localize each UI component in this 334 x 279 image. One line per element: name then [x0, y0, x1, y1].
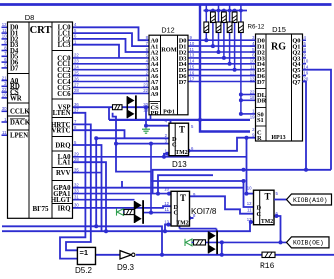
svg-text:32: 32: [74, 183, 79, 188]
wire FF-C D feed from V2 vertical: [244, 181, 254, 207]
svg-text:26: 26: [74, 76, 79, 81]
wire D13.C to U-route vertical: [116, 143, 169, 145]
wire ROM D2 to D15 D2: [188, 51, 256, 53]
wire ROM D3 to D15 D3: [188, 57, 256, 59]
wire D8 control stub: [2, 110, 8, 112]
net flag KIOB(A10): [287, 194, 332, 205]
wire CC0 to ROM A3: [73, 57, 150, 59]
junction L2/S line: [156, 192, 160, 196]
wire riser to D13.S: [170, 120, 172, 126]
svg-text:R: R: [257, 135, 262, 142]
wire pull-up to data line: [229, 33, 231, 64]
svg-text:PR: PR: [151, 110, 160, 117]
wire D8 data stub D7: [2, 67, 8, 69]
svg-text:12: 12: [2, 22, 7, 27]
wire to D15.DR: [241, 99, 256, 101]
svg-text:TM2: TM2: [261, 219, 273, 225]
svg-text:D5.2: D5.2: [75, 266, 92, 275]
svg-text:27: 27: [74, 82, 79, 87]
svg-text:KOI7/8: KOI7/8: [191, 207, 217, 216]
junction x96/bus: [94, 224, 98, 228]
junction pull-up/data: [217, 50, 221, 54]
wire DRQ down: [73, 145, 102, 231]
green input arrow group2: [117, 208, 124, 215]
wire CC2 to ROM A5: [73, 69, 150, 71]
svg-text:20: 20: [304, 76, 309, 81]
IC D15 shift register body: [256, 34, 303, 141]
svg-text:13: 13: [247, 217, 252, 222]
junction FF-B R pin: [167, 223, 171, 227]
wire RVV stub: [73, 172, 102, 174]
wire LC0 to ROM A0: [73, 27, 150, 40]
wire pull-up R12 column to DL DR S0: [240, 33, 242, 114]
resistor R16 body: [262, 252, 275, 257]
svg-text:12: 12: [250, 70, 255, 75]
svg-text:TM2: TM2: [175, 150, 187, 156]
wire D13.D line: [96, 137, 169, 139]
wire main vertical bus x=200 from top rail: [200, 5, 250, 132]
svg-text:10: 10: [2, 93, 7, 98]
wire D8 data stub D2: [2, 38, 8, 40]
wire group2 arrow link: [123, 211, 124, 213]
junction LA1/bus2: [104, 229, 108, 233]
svg-text:C: C: [174, 209, 179, 216]
wire ROM PGM from clock line: [150, 113, 152, 120]
ground symbol: [142, 128, 150, 134]
svg-text:Q7: Q7: [292, 79, 301, 86]
svg-text:23: 23: [143, 82, 148, 87]
junction sub-rail: [204, 9, 208, 13]
wire Q7 down to net: [303, 82, 307, 170]
svg-text:17: 17: [190, 76, 195, 81]
resistor group3: [194, 240, 206, 245]
svg-text:T: T: [180, 193, 186, 203]
wire rail stub to resistor: [218, 5, 220, 23]
svg-text:10: 10: [304, 59, 309, 64]
wire HRTC down to D5.2 detour: [66, 124, 91, 250]
svg-text:T: T: [264, 192, 270, 202]
svg-text:D7: D7: [10, 65, 19, 72]
wire FF-C Qbar down: [277, 216, 281, 242]
wire FF-B bottom riser to group3 line: [179, 226, 181, 229]
junction D13.Q: [187, 149, 191, 153]
svg-text:11: 11: [247, 207, 252, 212]
junction D13.C/clock riser: [149, 142, 153, 146]
svg-text:A9: A9: [151, 91, 159, 98]
diode pair VD on CS: [127, 95, 136, 119]
svg-text:24: 24: [74, 65, 79, 70]
XOR gate D5.2: [77, 247, 95, 264]
junction stem/D13.S wire: [144, 124, 148, 128]
junction sub-rail: [222, 9, 226, 13]
svg-text:D12: D12: [161, 26, 174, 35]
wire Q5 long to right edge and down: [303, 70, 332, 170]
wire D8 control stub: [2, 85, 8, 87]
junction pull-up/data: [211, 44, 215, 48]
wire ROM D7 to D15 D7: [188, 81, 256, 83]
svg-text:D7: D7: [257, 79, 266, 86]
svg-text:13: 13: [164, 220, 169, 225]
svg-text:22: 22: [2, 87, 7, 92]
wire D8 data stub D3: [2, 44, 8, 46]
wire D13.R hook from LA0 line: [164, 154, 169, 157]
wire pull-up to data line: [223, 23, 225, 58]
net flag KOIB(OE): [287, 237, 330, 248]
wire LC2 to ROM A2: [73, 39, 150, 52]
junction FF-C Qbar: [275, 214, 279, 218]
svg-text:29: 29: [74, 152, 79, 157]
resistor group2: [124, 209, 135, 214]
svg-text:RVV: RVV: [56, 170, 71, 177]
wire riser KOIB to R16 line: [221, 242, 223, 254]
svg-text:10: 10: [190, 41, 195, 46]
junction KOIB/riser: [220, 240, 224, 244]
wire sub-rail stub: [234, 11, 236, 13]
wire LTEN down to D5.2 detour: [60, 113, 85, 259]
wire ROM D6 to D15 D6: [188, 75, 256, 77]
junction Q7/line Q: [304, 168, 308, 172]
wire D5.2 out to D9.3 in: [96, 254, 121, 256]
svg-text:LA1: LA1: [58, 160, 71, 167]
svg-text:KIOB(A10): KIOB(A10): [293, 197, 328, 204]
svg-text:KOIB(OE): KOIB(OE): [293, 240, 324, 247]
junction CS/ground stem: [144, 105, 148, 109]
wire D8 data stub D1: [2, 32, 8, 34]
svg-text:30: 30: [74, 203, 79, 208]
wire RC filter to ROM CS: [122, 106, 149, 108]
wire LA0 long line to right: [73, 156, 247, 158]
wire CC6 to ROM A9: [73, 92, 150, 94]
wire group3 output / KOIB line: [206, 241, 287, 243]
svg-text:IRQ: IRQ: [58, 205, 71, 212]
junction FF-B S pin: [167, 192, 171, 196]
wire D8 control stub: [2, 134, 8, 136]
wire clock thick line y=119.9: [108, 107, 110, 120]
svg-text:ROM: ROM: [161, 46, 177, 53]
svg-text:R16: R16: [260, 262, 275, 271]
svg-text:12: 12: [247, 201, 252, 206]
resistor R11: [232, 12, 237, 23]
junction bus1/D9.3 out: [160, 253, 164, 257]
svg-text:РФ1: РФ1: [163, 110, 175, 116]
wire VSP to RC filter: [73, 106, 113, 108]
junction D13.C/U-route: [114, 142, 118, 146]
svg-text:D8: D8: [25, 13, 35, 22]
wire CC3 to ROM A6: [73, 75, 150, 77]
wire GPA1 to FF S: [73, 193, 170, 195]
svg-text:19: 19: [304, 70, 309, 75]
junction D13.S pin: [169, 124, 173, 128]
wire D9.3 output to R16 line: [136, 254, 334, 256]
svg-text:11: 11: [165, 207, 170, 212]
svg-text:31: 31: [74, 195, 79, 200]
wire resistor sub-rail: [204, 10, 248, 12]
svg-text:CC6: CC6: [57, 91, 71, 98]
wire to D13.S from stem: [146, 125, 169, 127]
svg-text:25: 25: [74, 70, 79, 75]
svg-text:33: 33: [74, 188, 79, 193]
flip-flop FF-C box: [254, 190, 275, 225]
wire D8 data stub D6: [2, 61, 8, 63]
junction hook/LA0 line: [162, 155, 166, 159]
svg-text:22: 22: [74, 53, 79, 58]
resistor R6: [204, 22, 209, 33]
svg-text:10: 10: [247, 186, 252, 191]
svg-text:10: 10: [250, 59, 255, 64]
junction FF-C R pin: [249, 220, 253, 224]
wire sub-rail stub: [223, 11, 225, 13]
svg-text:12: 12: [164, 201, 169, 206]
wire rail stub to resistor: [205, 5, 207, 23]
junction Qbar/KOIB: [279, 240, 283, 244]
wire pull-up to data line: [205, 33, 207, 41]
wire D8 control stub: [2, 80, 8, 82]
svg-text:S1: S1: [257, 117, 264, 124]
wire CC4 to ROM A7: [73, 81, 150, 83]
svg-text:D7: D7: [179, 79, 188, 86]
wire group3 arrow link: [192, 241, 194, 243]
svg-text:WR: WR: [10, 95, 22, 102]
svg-text:D13: D13: [172, 160, 187, 169]
junction line Q/V2: [242, 168, 246, 172]
wire ground stem: [145, 107, 147, 126]
junction sub-rail: [217, 9, 221, 13]
wire D13.Q to D15.R: [189, 138, 256, 151]
svg-text:DACK: DACK: [10, 119, 31, 126]
wire CC1 to ROM A4: [73, 63, 150, 65]
svg-text:22: 22: [250, 89, 255, 94]
junction clock riser/group2: [149, 211, 153, 215]
wire rail stub to resistor: [229, 5, 231, 23]
wire VRTC to D13.D line: [73, 130, 125, 138]
wire x=96.2 vertical to bus: [95, 138, 97, 226]
resistor CS filter: [113, 105, 123, 110]
svg-text:23: 23: [74, 59, 79, 64]
junction pull-up/data: [204, 38, 208, 42]
junction D15.R / S-net riser: [245, 136, 249, 140]
wire D8 control stub: [2, 97, 8, 99]
junction FF-B Qbar: [187, 216, 191, 220]
svg-text:21: 21: [2, 75, 7, 80]
IC D8 CRT controller KR580VG75 body: [8, 22, 73, 218]
junction pull-up/data: [228, 62, 232, 66]
svg-text:20: 20: [143, 102, 148, 107]
junction D13.R pin: [166, 152, 170, 156]
svg-text:LPEN: LPEN: [10, 133, 28, 140]
svg-text:35: 35: [74, 167, 79, 172]
svg-text:30: 30: [2, 106, 7, 111]
wire line Q horizontal with corner down to FF-B S: [153, 170, 331, 194]
svg-text:T: T: [179, 125, 185, 135]
wire pull-up to data line: [218, 33, 220, 53]
junction DR: [239, 98, 243, 102]
wire FF-C S stub: [247, 193, 254, 195]
svg-text:D9.3: D9.3: [117, 263, 134, 272]
wire ROM D4 to D15 D4: [188, 63, 256, 65]
resistor R10: [227, 22, 232, 33]
junction pull-up/data: [222, 56, 226, 60]
wire pull-up to data line: [212, 23, 214, 47]
svg-text:LTEN: LTEN: [53, 110, 71, 117]
resistor R8: [216, 22, 221, 33]
junction bus2/FF-B R: [163, 229, 167, 233]
svg-text:C: C: [257, 211, 262, 218]
wire GPA0 long line: [73, 187, 244, 189]
junction sub-rail: [239, 9, 243, 13]
resistor R7: [211, 12, 216, 23]
wire bottom bus 2 to FF-C R: [2, 222, 254, 231]
wire pull-up to data line: [234, 23, 236, 70]
svg-text:36: 36: [74, 102, 79, 107]
svg-text:13: 13: [250, 76, 255, 81]
wire LA1 down to bus: [73, 162, 107, 231]
wire FF-B Q out: [189, 217, 193, 219]
svg-text:CCLK: CCLK: [10, 109, 30, 116]
svg-text:16: 16: [190, 70, 195, 75]
wire ROM D5 to D15 D5: [188, 69, 256, 71]
svg-text:18: 18: [143, 107, 148, 112]
junction DL: [239, 93, 243, 97]
svg-text:28: 28: [74, 157, 79, 162]
diode pair group2: [135, 200, 144, 224]
wire sub-rail stub: [212, 11, 214, 13]
svg-text:D15: D15: [272, 25, 286, 34]
wire clock riser to group2 output: [150, 144, 152, 213]
wire FF-C Q to flag: [274, 199, 287, 201]
IC D12 character generator ROM body: [149, 35, 188, 115]
wire D8 data stub D0: [2, 26, 8, 28]
diode pair group3: [209, 231, 218, 255]
svg-text:VRTC: VRTC: [51, 128, 70, 135]
svg-text:DR: DR: [257, 98, 267, 105]
wire LTEN branch L-b to U-route: [113, 113, 151, 172]
junction bus/clock line: [198, 118, 202, 122]
wire D8 data stub D4: [2, 50, 8, 52]
wire CC5 to ROM A8: [73, 87, 150, 89]
wire group2 output to FF-B C: [143, 212, 171, 214]
wire to D15.DL: [241, 94, 256, 96]
wire bottom bus 1: [2, 226, 162, 255]
flip-flop D13 box: [169, 123, 189, 156]
junction V1/S branch: [245, 192, 249, 196]
svg-text:11: 11: [250, 65, 255, 70]
wire LC3 joining CC0 line: [73, 45, 120, 58]
svg-text:18: 18: [250, 95, 255, 100]
junction 181-line/V2: [242, 179, 246, 183]
svg-text:15: 15: [190, 65, 195, 70]
svg-text:10: 10: [2, 34, 7, 39]
svg-text:37: 37: [74, 108, 79, 113]
junction riser/R16 line: [220, 253, 224, 257]
svg-text:=1: =1: [80, 248, 89, 257]
svg-text:RG: RG: [271, 42, 286, 53]
junction S0: [239, 112, 243, 116]
wire ROM D1 to D15 D1: [188, 45, 256, 47]
svg-text:11: 11: [190, 47, 195, 52]
junction pull-up/data: [233, 68, 237, 72]
junction sub-rail: [233, 9, 237, 13]
svg-text:CRT: CRT: [30, 25, 52, 36]
wire FF-B Q to FF-C C clock chain: [190, 196, 254, 213]
wire +5V top power rail: [0, 3, 332, 6]
svg-text:14: 14: [190, 59, 195, 64]
resistor R12: [239, 22, 244, 33]
wire LC1 to ROM A1: [73, 33, 150, 46]
svg-text:13: 13: [190, 53, 195, 58]
wire FF-B Qbar stub: [190, 217, 194, 219]
wire y=181 line to S-net: [151, 180, 244, 182]
wire S-net vertical to FF-C: [246, 138, 248, 194]
wire riser x=122 linking 181 and 187.7 lines: [121, 181, 123, 188]
inverter D9.3: [120, 251, 132, 259]
svg-text:19: 19: [250, 115, 255, 120]
wire FF-B R from bus2: [165, 225, 171, 232]
wire D8 control stub: [2, 121, 8, 123]
svg-text:22: 22: [143, 88, 148, 93]
svg-text:R6-12: R6-12: [248, 24, 265, 31]
svg-text:DRQ: DRQ: [55, 142, 70, 149]
wire group3 cathode rail link: [216, 229, 218, 232]
svg-text:10: 10: [164, 187, 169, 192]
wire IRQ line to FF-B D: [73, 206, 172, 208]
svg-text:C: C: [172, 142, 177, 149]
svg-text:11: 11: [2, 28, 7, 33]
svg-text:11: 11: [2, 130, 7, 135]
wire to D15.S0: [241, 113, 256, 115]
junction x96/D13.D: [94, 136, 98, 140]
junction sub-rail: [228, 9, 232, 13]
wire L2 line with riser to FF-B S line: [158, 175, 213, 193]
resistor R9: [222, 12, 227, 23]
wire ROM D0 to D15 D0: [188, 39, 256, 41]
junction sub-rail: [211, 9, 215, 13]
svg-text:ИР13: ИР13: [271, 135, 285, 141]
wire HLGT to diode rail: [73, 199, 135, 201]
wire rail stub to resistor: [240, 5, 242, 23]
svg-text:ВГ75: ВГ75: [32, 205, 49, 213]
svg-text:14: 14: [304, 65, 309, 70]
svg-text:TM2: TM2: [176, 220, 188, 226]
svg-text:LC3: LC3: [58, 42, 71, 49]
wire D8 control stub: [2, 91, 8, 93]
wire D8 data stub D5: [2, 55, 8, 57]
green input arrow group3: [185, 239, 192, 246]
svg-text:28: 28: [74, 88, 79, 93]
svg-text:HLGT: HLGT: [51, 197, 71, 204]
flip-flop FF-B box: [171, 191, 190, 226]
